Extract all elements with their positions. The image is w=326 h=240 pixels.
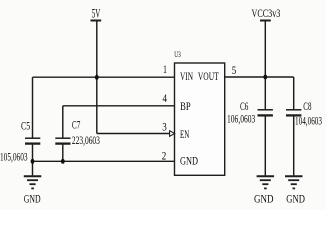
- svg-text:GND: GND: [180, 154, 198, 168]
- svg-text:C7: C7: [72, 118, 80, 132]
- wire C7 top lead: [62, 106, 64, 138]
- svg-text:VCC3v3: VCC3v3: [252, 6, 281, 20]
- svg-text:5: 5: [232, 63, 237, 77]
- svg-text:VIN: VIN: [180, 69, 193, 83]
- svg-text:EN: EN: [180, 127, 189, 141]
- svg-text:C8: C8: [303, 99, 311, 113]
- svg-text:104,0603: 104,0603: [295, 113, 322, 127]
- power symbol VCC3v3: [252, 6, 281, 21]
- svg-text:106,0603: 106,0603: [227, 111, 255, 125]
- wire bottom rail to GND pin2: [33, 160, 175, 162]
- op-amp U1 regulator body U3: [175, 63, 225, 175]
- junction dot 5V/VIN rail: [95, 75, 99, 80]
- svg-text:GND: GND: [254, 191, 274, 205]
- svg-text:223,0603: 223,0603: [72, 133, 100, 147]
- wire C7 bottom lead: [62, 144, 64, 162]
- svg-text:1: 1: [163, 62, 167, 76]
- svg-text:2: 2: [162, 148, 167, 162]
- wire C6 bottom lead: [264, 116, 266, 176]
- svg-text:5V: 5V: [92, 5, 101, 20]
- wire C5 ground lead: [32, 161, 34, 175]
- wire VOUT pin5 to C8 branch: [225, 76, 294, 78]
- ground under C8: [285, 176, 303, 188]
- svg-text:3: 3: [162, 119, 167, 133]
- pin 3 EN input arrow: [170, 131, 175, 137]
- wire C8 bottom lead: [293, 116, 295, 176]
- svg-text:GND: GND: [286, 191, 305, 205]
- svg-text:VOUT: VOUT: [198, 69, 219, 83]
- ground under C6: [257, 176, 275, 188]
- svg-text:4: 4: [162, 91, 167, 105]
- wire 5V vertical down through junction to EN level: [96, 21, 98, 134]
- junction dot C7 bottom rail: [61, 159, 65, 164]
- capacitor C7: [55, 118, 100, 148]
- junction dot C5 bottom rail: [31, 159, 35, 164]
- ground under C5: [24, 176, 42, 188]
- svg-text:GND: GND: [24, 191, 41, 205]
- power symbol 5V: [91, 5, 102, 20]
- svg-text:U3: U3: [174, 49, 181, 59]
- junction dot VCC3v3/VOUT rail: [263, 75, 267, 80]
- svg-text:105,0603: 105,0603: [0, 149, 28, 163]
- capacitor C8: [286, 99, 322, 128]
- svg-text:C5: C5: [21, 118, 30, 132]
- capacitor C6: [227, 99, 273, 126]
- wire BP horizontal to pin 4: [63, 105, 175, 107]
- wire EN horizontal to pin 3: [97, 133, 170, 135]
- wire left vertical to C5: [32, 77, 34, 138]
- capacitor C5: [0, 118, 40, 163]
- wire C5 bottom lead: [32, 144, 34, 162]
- svg-text:BP: BP: [180, 99, 191, 113]
- wire VCC3v3 vertical down to C6: [264, 21, 266, 110]
- wire C8 top lead: [293, 77, 295, 109]
- wire top rail from C5 to VIN pin1: [33, 76, 175, 78]
